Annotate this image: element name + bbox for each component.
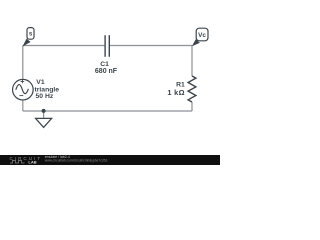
svg-text:Vc: Vc [198,32,206,39]
svg-text:1 kΩ: 1 kΩ [167,88,184,97]
svg-text:C1: C1 [100,61,109,68]
svg-text:www.circuitlab.com/circuit/cmb: www.circuitlab.com/circuit/cmb8ypba7c263 [45,159,108,163]
svg-text:s: s [29,31,33,38]
svg-text:680 nF: 680 nF [95,68,118,75]
svg-text:50 Hz: 50 Hz [36,93,54,100]
svg-text:V1: V1 [36,79,45,86]
svg-text:LAB: LAB [28,159,36,164]
